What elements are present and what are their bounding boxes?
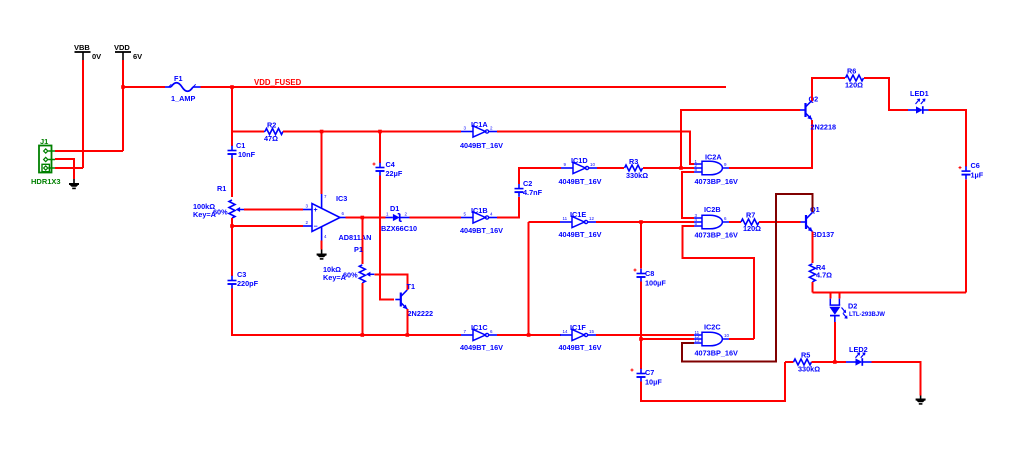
- svg-text:C1: C1: [236, 141, 245, 150]
- wire IC1B output to C2: [497, 197, 519, 218]
- svg-text:4049BT_16V: 4049BT_16V: [460, 141, 503, 150]
- svg-text:VDD_FUSED: VDD_FUSED: [254, 78, 302, 87]
- connector J1 HDR1X3: [39, 146, 52, 173]
- wire op-amp output: [346, 217, 386, 219]
- svg-text:R3: R3: [629, 157, 638, 166]
- op-amp IC3 AD811AN: [312, 204, 340, 232]
- svg-text:15: 15: [589, 329, 595, 334]
- wire J1 pin3 to VBB net: [55, 167, 83, 169]
- svg-text:R5: R5: [801, 351, 810, 360]
- wire LED2 to ground: [872, 362, 921, 396]
- svg-text:14: 14: [563, 329, 569, 334]
- svg-text:P1: P1: [354, 245, 363, 254]
- svg-text:Q2: Q2: [809, 95, 819, 104]
- svg-text:60%: 60%: [213, 208, 228, 217]
- potentiometer P1 10k: [359, 265, 365, 283]
- resistor R5 330kohm: [794, 359, 812, 365]
- inverter IC1F: [572, 329, 584, 340]
- svg-text:4049BT_16V: 4049BT_16V: [460, 343, 503, 352]
- transistor T1 2N2222: [400, 293, 402, 307]
- svg-text:330kΩ: 330kΩ: [798, 365, 820, 374]
- svg-text:IC2B: IC2B: [704, 205, 721, 214]
- svg-text:LTL-293BJW: LTL-293BJW: [849, 312, 885, 318]
- wire P1 top: [361, 218, 363, 265]
- LED D2 LTL-293BJW dual anode: [829, 293, 831, 299]
- svg-text:+: +: [314, 207, 318, 214]
- wire R5 left: [785, 361, 794, 363]
- svg-text:LED2: LED2: [849, 345, 868, 354]
- wire node up to Q2 base: [681, 110, 800, 168]
- wire C1 to R1: [231, 159, 233, 197]
- svg-text:IC1D: IC1D: [571, 156, 588, 165]
- resistor R6 120ohm: [846, 75, 864, 81]
- svg-text:R1: R1: [217, 184, 226, 193]
- capacitor C6 1uF: [962, 170, 971, 172]
- capacitor C4 22uF: [376, 167, 385, 169]
- svg-text:10: 10: [590, 162, 596, 167]
- wire IC2B output to R7: [729, 221, 741, 223]
- svg-text:100µF: 100µF: [645, 279, 666, 288]
- wire C2 to IC1D input: [519, 168, 561, 184]
- svg-text:22µF: 22µF: [386, 169, 403, 178]
- wire R4 to D2: [811, 282, 813, 293]
- and gate IC2B 4073: [702, 215, 722, 229]
- svg-text:11: 11: [563, 216, 568, 221]
- svg-text:HDR1X3: HDR1X3: [31, 177, 61, 186]
- wire C8 to IC2C input2: [640, 282, 642, 339]
- capacitor C8 100uF: [637, 273, 646, 275]
- capacitor C8 100uF node: [640, 222, 642, 269]
- svg-text:IC1E: IC1E: [570, 210, 586, 219]
- wire R1 bottom / op-amp - node: [231, 218, 233, 276]
- ground under J1 pin2: [73, 179, 75, 184]
- wire VBB vertical to J1 pin3: [82, 60, 84, 168]
- svg-text:C6: C6: [971, 161, 980, 170]
- wire P1 bottom to rail: [361, 283, 363, 335]
- wire IC1E output to IC2B input2: [596, 221, 694, 223]
- resistor R2 47ohm: [265, 129, 283, 135]
- capacitor C1 10nF: [231, 132, 233, 146]
- wire IC2B input3 from IC2C output: [683, 226, 755, 339]
- svg-text:220pF: 220pF: [237, 279, 259, 288]
- svg-text:R2: R2: [267, 121, 276, 130]
- maroon wire Q1 collector to IC2C input3: [682, 194, 812, 362]
- svg-text:13: 13: [695, 338, 701, 343]
- svg-text:IC1B: IC1B: [471, 206, 488, 215]
- svg-text:4.7nF: 4.7nF: [523, 188, 543, 197]
- svg-text:T1: T1: [407, 282, 416, 291]
- wire IC2A input3 to IC2B input1: [682, 172, 694, 218]
- svg-text:IC2C: IC2C: [704, 323, 721, 332]
- capacitor C7 10uF: [637, 373, 646, 375]
- fuse F1 1_AMP: [165, 86, 171, 88]
- wire P1 wiper to T1 collector: [374, 274, 407, 290]
- svg-text:10nF: 10nF: [238, 150, 256, 159]
- wire IC2A output to Q2 emitter: [729, 120, 812, 168]
- inverter IC1A: [473, 126, 485, 137]
- svg-text:−: −: [314, 224, 318, 231]
- wire D2 to LED2 node: [834, 322, 836, 362]
- and gate IC2A 4073: [702, 161, 722, 175]
- resistor R4 4.7ohm: [809, 264, 815, 282]
- wire R6 to LED1: [864, 78, 908, 110]
- wire IC1C output to IC1F input: [497, 334, 561, 336]
- wire bus drop to R2 line: [231, 87, 233, 132]
- svg-text:IC3: IC3: [336, 194, 347, 203]
- svg-text:4.7Ω: 4.7Ω: [816, 271, 832, 280]
- svg-text:VBB: VBB: [74, 43, 90, 52]
- wire D1 to IC1B input: [410, 217, 462, 219]
- svg-text:BZX66C10: BZX66C10: [381, 224, 417, 233]
- svg-text:R7: R7: [746, 211, 755, 220]
- transistor Q2 2N2218: [804, 103, 806, 117]
- wire J1 pin1 to VDD net: [55, 150, 123, 152]
- svg-text:4073BP_16V: 4073BP_16V: [695, 231, 739, 240]
- wire IC1D output to R3: [597, 167, 624, 169]
- svg-text:C7: C7: [645, 368, 654, 377]
- svg-text:2N2218: 2N2218: [811, 123, 837, 132]
- svg-text:IC1F: IC1F: [570, 323, 586, 332]
- svg-text:C3: C3: [237, 270, 246, 279]
- svg-text:LED1: LED1: [910, 89, 929, 98]
- wire R3 to Q2 base node: [643, 167, 681, 169]
- svg-text:IC1A: IC1A: [471, 120, 488, 129]
- svg-text:BD137: BD137: [812, 230, 835, 239]
- capacitor C3 220pF: [228, 280, 237, 282]
- op-amp ground: [321, 241, 323, 250]
- inverter IC1E: [572, 216, 584, 227]
- inverter IC1C: [473, 329, 485, 340]
- svg-text:120Ω: 120Ω: [743, 224, 761, 233]
- wire to IC2C input2: [641, 338, 694, 340]
- svg-text:330kΩ: 330kΩ: [626, 171, 648, 180]
- wire tap up to IC1E input: [528, 222, 530, 335]
- wire C4 branch from R2 line: [379, 132, 381, 163]
- svg-text:4073BP_16V: 4073BP_16V: [695, 349, 739, 358]
- potentiometer R1 100k: [229, 200, 235, 218]
- svg-text:D2: D2: [848, 302, 857, 311]
- svg-text:1_AMP: 1_AMP: [171, 94, 195, 103]
- resistor R3 330kohm: [625, 165, 643, 171]
- svg-text:4049BT_16V: 4049BT_16V: [559, 230, 602, 239]
- svg-text:IC2A: IC2A: [705, 153, 722, 162]
- wire node to IC2A input2: [681, 167, 694, 169]
- LED2: [846, 361, 856, 363]
- wire R2 line left: [232, 131, 264, 133]
- svg-text:12: 12: [589, 216, 595, 221]
- inverter IC1D: [573, 162, 585, 173]
- svg-text:4073BP_16V: 4073BP_16V: [695, 177, 739, 186]
- resistor R7 120ohm: [741, 219, 759, 225]
- svg-text:120Ω: 120Ω: [845, 81, 863, 90]
- wire T1 emitter to rail: [406, 309, 408, 335]
- svg-text:4049BT_16V: 4049BT_16V: [559, 343, 602, 352]
- svg-text:60%: 60%: [343, 271, 358, 280]
- transistor Q1 BD137: [805, 215, 807, 229]
- wire VDD_FUSED bus: [123, 86, 165, 88]
- diode D1 BZX66C10: [386, 217, 393, 219]
- svg-text:1µF: 1µF: [971, 171, 984, 180]
- wire op-amp V+ to R2 line: [321, 132, 323, 195]
- wire Q2 collector to R6: [812, 78, 845, 100]
- wire IC2C output to feedback node: [729, 338, 754, 340]
- wire IC1A output to IC2A: [497, 132, 694, 165]
- wire C6 to D2 node: [965, 179, 967, 292]
- svg-text:2N2222: 2N2222: [408, 309, 434, 318]
- wire R5 to LED2: [812, 361, 847, 363]
- wire C7 to R5: [641, 362, 785, 401]
- wire Q1 emitter to R4: [811, 232, 813, 263]
- svg-text:C2: C2: [523, 179, 532, 188]
- wire C4 to T1 base: [380, 176, 394, 300]
- svg-text:F1: F1: [174, 74, 183, 83]
- svg-text:D1: D1: [390, 204, 399, 213]
- inverter IC1B: [473, 212, 485, 223]
- wire R7 to Q1 base: [759, 221, 801, 223]
- svg-text:6V: 6V: [133, 52, 142, 61]
- svg-text:4049BT_16V: 4049BT_16V: [559, 177, 602, 186]
- wire J1 pin2 to ground: [55, 159, 74, 179]
- svg-text:10µF: 10µF: [645, 378, 662, 387]
- wire C3 to bottom rail: [231, 289, 233, 336]
- svg-text:47Ω: 47Ω: [264, 134, 278, 143]
- LED1: [908, 109, 916, 111]
- wire to IC1E input: [529, 221, 560, 223]
- svg-text:R6: R6: [847, 67, 856, 76]
- wire LED1 to C6: [929, 110, 967, 166]
- svg-text:C4: C4: [386, 160, 396, 169]
- svg-text:4049BT_16V: 4049BT_16V: [460, 226, 503, 235]
- svg-text:VDD: VDD: [114, 43, 130, 52]
- wire down to C7: [640, 339, 642, 369]
- wire IC1F output to IC2C input1: [596, 334, 694, 336]
- bottom rail wire: [231, 334, 461, 336]
- svg-text:0V: 0V: [92, 52, 101, 61]
- svg-text:J1: J1: [40, 137, 48, 146]
- svg-text:10: 10: [724, 333, 730, 338]
- wire op-amp - input: [232, 225, 303, 227]
- ground at LED2: [920, 396, 922, 400]
- capacitor C2 4.7nF: [515, 188, 524, 190]
- svg-text:C8: C8: [645, 269, 654, 278]
- wire VDD vertical to J1 pin1: [122, 60, 124, 151]
- wire R1 wiper to op-amp +: [244, 209, 303, 211]
- wire R2 to IC1A input: [283, 131, 461, 133]
- svg-text:AD811AN: AD811AN: [339, 233, 372, 242]
- and gate IC2C 4073: [702, 332, 722, 346]
- svg-text:IC1C: IC1C: [471, 323, 488, 332]
